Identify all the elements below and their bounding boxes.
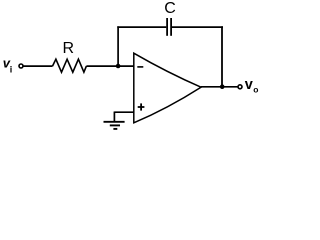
- wire input to resistor: [23, 65, 52, 67]
- wire feedback vertical left: [117, 26, 119, 66]
- ground riser: [113, 112, 115, 122]
- ground symbol: [104, 121, 125, 123]
- wire resistor to op-amp inverting input: [86, 65, 133, 67]
- op-amp inverting input minus sign: [137, 66, 143, 68]
- wire feedback top right segment: [172, 26, 223, 28]
- resistor R: [53, 59, 87, 72]
- svg-text:i: i: [10, 64, 13, 74]
- input terminal circle: [19, 64, 23, 68]
- capacitor C right plate: [170, 18, 172, 36]
- wire feedback top left segment: [117, 26, 166, 28]
- svg-text:v: v: [245, 77, 253, 93]
- wire op-amp output: [201, 86, 238, 88]
- capacitor C left plate: [166, 18, 168, 36]
- svg-text:o: o: [253, 84, 258, 94]
- wire feedback vertical right: [221, 26, 223, 87]
- node junction dot at output: [220, 84, 225, 89]
- svg-text:C: C: [164, 0, 176, 17]
- svg-text:R: R: [63, 40, 75, 57]
- wire non-inverting input to ground: [114, 111, 133, 113]
- node junction dot at inverting input: [116, 64, 121, 69]
- output terminal circle: [238, 85, 242, 89]
- op-amp U1 triangle: [134, 53, 201, 123]
- op-amp non-inverting input plus sign: [138, 106, 145, 108]
